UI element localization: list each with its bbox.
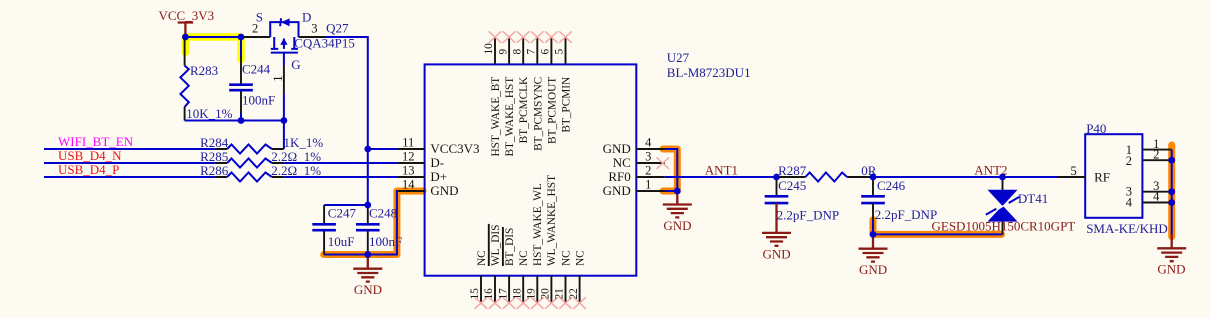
svg-text:8: 8 <box>511 49 523 55</box>
no-ERC marker pin 7 <box>531 31 544 43</box>
capacitor C246 <box>861 177 937 234</box>
svg-text:RF: RF <box>1094 170 1110 185</box>
svg-text:100nF: 100nF <box>242 92 275 107</box>
svg-text:12: 12 <box>402 150 415 164</box>
resistor R287 0R <box>777 163 877 182</box>
svg-text:2: 2 <box>1126 154 1132 168</box>
pin 12 D- <box>398 162 425 164</box>
svg-text:GND: GND <box>1157 262 1185 277</box>
svg-text:1: 1 <box>271 76 285 82</box>
diode DT41 TVS <box>932 177 1076 234</box>
no-ERC marker pin 22 <box>573 297 586 309</box>
svg-text:2.2Ω_1%: 2.2Ω_1% <box>271 149 321 164</box>
ground G5 under P40 <box>1157 234 1186 277</box>
svg-text:10K_1%: 10K_1% <box>186 106 232 121</box>
pin 1 P40 <box>1142 149 1171 151</box>
svg-text:WIFI_BT_EN: WIFI_BT_EN <box>58 134 134 149</box>
svg-text:ANT1: ANT1 <box>705 163 738 178</box>
svg-text:C246: C246 <box>877 178 906 193</box>
pin 14 GND <box>398 190 425 192</box>
svg-text:P40: P40 <box>1086 121 1106 136</box>
wire pin4 to GND <box>665 149 678 191</box>
no-ERC marker pin 18 <box>517 297 530 309</box>
pin 2 RF0 <box>636 176 665 178</box>
svg-text:NC: NC <box>476 250 488 266</box>
svg-text:DT41: DT41 <box>1018 191 1048 206</box>
resistor R285 <box>200 149 321 168</box>
transistor Q27 CQA34P15 <box>242 9 355 93</box>
wire WIFI_BT_EN <box>44 148 215 150</box>
pin 9 BT_WAKE_HST <box>508 37 510 64</box>
pin 3 NC <box>636 162 665 164</box>
svg-text:10uF: 10uF <box>328 234 355 249</box>
svg-text:BT_WAKE_HST: BT_WAKE_HST <box>504 77 516 157</box>
node P40 pin2 junction <box>1168 157 1175 164</box>
no-ERC marker pin 21 <box>559 297 572 309</box>
svg-text:2: 2 <box>645 164 651 178</box>
svg-text:R284: R284 <box>200 135 229 150</box>
node C244 top junction <box>238 34 245 41</box>
pin 22 NC <box>579 276 581 303</box>
capacitor C248 <box>356 205 402 255</box>
svg-text:R283: R283 <box>190 63 218 78</box>
svg-text:1: 1 <box>645 178 651 192</box>
node VCC_3V3 junction <box>182 34 189 41</box>
capacitor C247 <box>312 205 356 255</box>
capacitor C245 <box>765 177 839 222</box>
svg-text:3: 3 <box>645 150 651 164</box>
pin 8 BT_PCMCLK <box>522 37 524 64</box>
node P40 pin3 junction <box>1168 188 1175 195</box>
svg-text:RF0: RF0 <box>608 169 630 184</box>
no-ERC marker pin 6 <box>545 31 558 43</box>
pin 16 WL_DIS <box>494 276 496 303</box>
no-ERC marker pin 3 <box>657 157 670 169</box>
node C246 junction <box>870 174 877 181</box>
capacitor C244 <box>229 37 275 121</box>
svg-text:NC: NC <box>518 250 530 266</box>
ground G3 under C245 <box>762 203 791 261</box>
highlight orange pin14 GND trace <box>324 191 423 255</box>
pin 5 RF <box>1057 176 1085 178</box>
svg-text:GND: GND <box>663 218 691 233</box>
svg-text:BT_PCMSYNC: BT_PCMSYNC <box>532 77 544 151</box>
node caps bottom junction <box>364 251 371 258</box>
pin 15 NC <box>480 276 482 303</box>
wire R285 to pin 12 <box>284 162 397 164</box>
svg-text:BL-M8723DU1: BL-M8723DU1 <box>667 65 751 80</box>
wire VCC to C244 <box>185 36 241 38</box>
pin 4 P40 <box>1142 202 1171 204</box>
svg-text:C247: C247 <box>328 206 357 221</box>
svg-text:3: 3 <box>311 22 317 36</box>
svg-text:2.2Ω_1%: 2.2Ω_1% <box>271 163 321 178</box>
node C244 bottom junction <box>238 117 245 124</box>
wire row1 to pin 11 <box>368 148 398 150</box>
svg-text:4: 4 <box>1126 195 1133 209</box>
svg-text:NC: NC <box>613 155 631 170</box>
pin 3 P40 <box>1142 191 1171 193</box>
wire gate to R284 <box>283 93 285 149</box>
svg-text:G: G <box>291 57 300 72</box>
svg-text:D+: D+ <box>430 169 447 184</box>
svg-text:R287: R287 <box>778 163 807 178</box>
node C246 bottom junction <box>870 231 877 238</box>
wire drain to VCC3V3 pin and caps <box>326 37 368 205</box>
svg-text:VCC_3V3: VCC_3V3 <box>159 8 215 23</box>
svg-text:13: 13 <box>402 164 415 178</box>
pin 19 HST_WAKE_WL <box>536 276 538 303</box>
svg-text:4: 4 <box>645 136 652 150</box>
no-ERC marker pin 9 <box>503 31 516 43</box>
highlight orange P40 GND trace <box>1168 145 1175 237</box>
svg-text:5: 5 <box>554 49 566 55</box>
svg-text:1K_1%: 1K_1% <box>284 135 324 150</box>
svg-text:C244: C244 <box>242 62 271 77</box>
svg-text:10: 10 <box>483 43 495 55</box>
node pin1 GND junction <box>674 188 681 195</box>
wire bottom rail R283/C244/gate <box>185 120 284 122</box>
svg-text:GESD1005H150CR10GPT: GESD1005H150CR10GPT <box>932 219 1076 234</box>
no-ERC marker pin 20 <box>545 297 558 309</box>
pin 10 HST_WAKE_BT <box>494 37 496 64</box>
ground G1 under C247/C248 <box>353 255 382 298</box>
wire caps top branch <box>324 204 368 206</box>
svg-text:4: 4 <box>1153 190 1160 204</box>
node P40 pin4 junction <box>1168 199 1175 206</box>
pin 2 P40 <box>1142 159 1171 161</box>
svg-text:GND: GND <box>763 246 791 261</box>
highlight orange pin4-pin1 GND trace <box>663 149 677 191</box>
svg-text:BT_PCMOUT: BT_PCMOUT <box>546 77 558 144</box>
resistor R286 <box>200 163 321 182</box>
wire USB_D4_P <box>44 176 215 178</box>
no-ERC marker pin 15 <box>475 297 488 309</box>
ground G4 under C246 <box>859 234 888 277</box>
svg-text:C245: C245 <box>778 178 806 193</box>
svg-text:WL_DIS: WL_DIS <box>490 225 502 266</box>
svg-text:11: 11 <box>402 136 414 150</box>
pin 4 GND <box>636 148 665 150</box>
wire P40 pins to GND <box>1171 150 1173 236</box>
wire R286 to pin 13 <box>284 176 397 178</box>
svg-text:100nF: 100nF <box>369 234 402 249</box>
pin 18 NC <box>522 276 524 303</box>
no-ERC marker pin 10 <box>489 31 502 43</box>
wire R287 to ANT2/P40 <box>873 176 1057 178</box>
connector P40 SMA-KE/KHD <box>1085 121 1168 236</box>
svg-text:GND: GND <box>603 183 631 198</box>
pin 1 GND <box>636 190 665 192</box>
svg-text:5: 5 <box>1070 164 1076 178</box>
node caps top junction <box>364 202 371 209</box>
svg-text:R285: R285 <box>200 149 228 164</box>
wire C246 to DT41 GND <box>873 233 1003 235</box>
svg-text:D: D <box>302 9 311 24</box>
svg-text:BT_PCMCLK: BT_PCMCLK <box>518 76 530 143</box>
svg-text:C248: C248 <box>369 206 397 221</box>
wire USB_D4_N <box>44 162 215 164</box>
svg-text:2.2pF_DNP: 2.2pF_DNP <box>875 207 938 222</box>
svg-text:NC: NC <box>574 250 586 266</box>
pin 17 BT_DIS <box>508 276 510 303</box>
svg-text:BT_PCMIN: BT_PCMIN <box>561 77 573 133</box>
node C245 junction <box>773 174 780 181</box>
pin 11 VCC3V3 <box>398 148 425 150</box>
power symbol VCC_3V3 <box>159 8 215 37</box>
svg-text:U27: U27 <box>667 50 690 65</box>
svg-text:VCC3V3: VCC3V3 <box>430 141 479 156</box>
resistor R283 <box>180 37 232 121</box>
svg-text:2.2pF_DNP: 2.2pF_DNP <box>777 207 840 222</box>
svg-text:USB_D4_N: USB_D4_N <box>58 148 122 163</box>
svg-text:2: 2 <box>1153 147 1159 161</box>
svg-text:SMA-KE/KHD: SMA-KE/KHD <box>1086 221 1168 236</box>
svg-text:GND: GND <box>354 282 382 297</box>
pin 21 NC <box>565 276 567 303</box>
svg-text:GND: GND <box>603 141 631 156</box>
highlight orange C246-DT41 GND trace <box>873 220 1002 235</box>
svg-text:WL_WANKE_HST: WL_WANKE_HST <box>546 175 558 266</box>
ground G2 under pin1 <box>663 191 692 233</box>
svg-text:BT_DIS: BT_DIS <box>504 228 516 266</box>
highlight yellow VCC_3V3 net <box>185 37 241 60</box>
svg-text:R286: R286 <box>200 163 229 178</box>
svg-text:2: 2 <box>252 22 258 36</box>
resistor R284 <box>200 135 323 153</box>
pin 5 BT_PCMIN <box>565 37 567 64</box>
svg-text:USB_D4_P: USB_D4_P <box>58 162 119 177</box>
svg-text:D-: D- <box>430 155 444 170</box>
IC U27 BL-M8723DU1 <box>425 50 751 276</box>
wire RF0 to R287 <box>665 176 777 178</box>
svg-text:GND: GND <box>430 183 458 198</box>
wire pin14 to caps bottom <box>324 191 398 255</box>
svg-text:14: 14 <box>402 178 415 192</box>
node DT41 junction <box>999 174 1006 181</box>
svg-text:6: 6 <box>540 49 552 55</box>
svg-text:NC: NC <box>560 250 572 266</box>
no-ERC marker pin 17 <box>503 297 516 309</box>
svg-text:9: 9 <box>497 49 509 55</box>
svg-text:HST_WAKE_BT: HST_WAKE_BT <box>490 77 502 157</box>
svg-text:Q27: Q27 <box>326 20 349 35</box>
no-ERC marker pin 16 <box>489 297 502 309</box>
node VCC3V3 row junction <box>364 146 371 153</box>
pin 20 WL_WANKE_HST <box>550 276 552 303</box>
no-ERC marker pin 19 <box>531 297 544 309</box>
svg-text:HST_WAKE_WL: HST_WAKE_WL <box>532 183 544 266</box>
pin 7 BT_PCMSYNC <box>536 37 538 64</box>
no-ERC marker pin 5 <box>559 31 572 43</box>
no-ERC marker pin 8 <box>517 31 530 43</box>
node Q27 gate junction <box>281 117 288 124</box>
svg-text:7: 7 <box>526 49 538 55</box>
svg-text:GND: GND <box>859 262 887 277</box>
pin 6 BT_PCMOUT <box>550 37 552 64</box>
pin 13 D+ <box>398 176 425 178</box>
